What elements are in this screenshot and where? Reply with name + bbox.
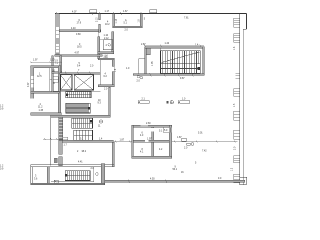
duct room left of landing [139, 59, 145, 75]
left unit B interior horiz wall [31, 91, 59, 93]
bottom wall right part [105, 180, 245, 182]
interior wall between room A1 and A2 [59, 30, 101, 32]
svg-text:1.97: 1.97 [33, 59, 38, 61]
landing vertical lines [160, 48, 162, 73]
machine room left of shafts [52, 73, 54, 92]
svg-text:10.2: 10.2 [105, 24, 110, 26]
dimension line above stair [144, 45, 204, 47]
interior vertical wall x~99 [98, 14, 101, 59]
ticks on core wall [65, 72, 91, 76]
small room below unit A [52, 56, 62, 73]
east wall window group 6 [234, 156, 240, 163]
stair flight D [74, 130, 93, 140]
svg-text:1.43: 1.43 [165, 43, 170, 45]
left unit B east wall [58, 66, 61, 115]
east wall window group 1 [234, 18, 240, 27]
bottom stair flight E [65, 171, 90, 181]
stair flight A [66, 91, 91, 97]
elevator shaft 2 [74, 75, 93, 90]
svg-text:7.61: 7.61 [184, 17, 189, 19]
block top wall window [141, 125, 149, 127]
wall above room 2 [62, 140, 113, 142]
window symbol above wall right [150, 10, 157, 13]
svg-text:1.87: 1.87 [177, 137, 182, 139]
svg-text:3.80: 3.80 [76, 34, 81, 36]
block right wall window [170, 128, 172, 133]
left unit B partitions [50, 68, 59, 92]
hall fixture 3 (flag) [178, 100, 189, 104]
top exterior wall [55, 13, 247, 15]
bathroom cluster [97, 17, 114, 54]
unit A west wall with two windows [56, 14, 60, 57]
east wall of bottom-left area [101, 164, 104, 185]
svg-text:3.07: 3.07 [28, 82, 30, 87]
wall above bottom-left unit [31, 165, 114, 167]
left unit B top wall [31, 66, 59, 68]
svg-text:2.60: 2.60 [146, 123, 151, 125]
svg-text:1.17: 1.17 [105, 11, 110, 13]
main stair flight F2 [161, 64, 201, 73]
elevator shaft 1 [60, 75, 72, 90]
lower-middle block outer walls [132, 125, 172, 158]
left connector line [114, 141, 132, 143]
sub-partition top-right cell [163, 127, 169, 132]
room 2 east wall [112, 142, 114, 167]
svg-text:1.67: 1.67 [123, 11, 128, 13]
dimension ticks on top wall [56, 12, 142, 15]
stair flight C [72, 118, 93, 128]
svg-text:4.07: 4.07 [72, 12, 77, 14]
lower part of west wall [59, 140, 62, 154]
hall fixture 2 (column and circle) [166, 101, 168, 104]
left unit B bottom wall [31, 113, 61, 115]
dimension line above unit B [30, 61, 62, 63]
svg-text:38.2: 38.2 [82, 151, 87, 153]
unit A bottom wall [55, 55, 102, 57]
main stair east wall [203, 47, 205, 76]
washer fixture [54, 180, 58, 183]
east wall window group 3 [234, 89, 240, 97]
tick marks on bottom wall [128, 179, 167, 182]
svg-text:1.87: 1.87 [120, 139, 125, 141]
svg-text:18.5: 18.5 [77, 46, 82, 48]
bottom wall left part [31, 183, 105, 185]
stair flight B [66, 103, 90, 113]
thin line right of stair E [93, 167, 95, 182]
svg-text:11.2: 11.2 [38, 106, 43, 108]
vertical wall right of corridor [109, 87, 111, 115]
svg-text:12.5: 12.5 [37, 76, 42, 78]
svg-text:1.05: 1.05 [152, 61, 154, 66]
window symbol above wall left [90, 10, 97, 13]
top-middle room [113, 14, 142, 28]
line under shafts [52, 91, 101, 93]
block interior door gaps [151, 128, 153, 131]
east wall window group 4 [234, 111, 240, 120]
svg-text:1.97: 1.97 [147, 138, 152, 140]
svg-text:1.10: 1.10 [116, 18, 118, 23]
east exterior wall lines [240, 14, 247, 185]
main stair: pier [145, 47, 150, 54]
room R1 [98, 58, 114, 87]
svg-text:1.10: 1.10 [50, 59, 55, 61]
svg-text:7.42: 7.42 [202, 150, 207, 152]
core top wall above elevators [60, 73, 101, 75]
hatched west wall of stair tower [59, 117, 63, 140]
main stair flight F1 with diagonal [161, 51, 201, 64]
svg-text:1.45: 1.45 [39, 110, 44, 112]
east wall marks mid [236, 73, 240, 78]
svg-text:5.01: 5.01 [198, 132, 203, 134]
main stair west wall [145, 47, 147, 75]
svg-text:4.41: 4.41 [78, 162, 83, 164]
small box and tick line at corridor [43, 137, 68, 142]
svg-text:17.9: 17.9 [77, 22, 82, 24]
east wall window group 7 [234, 174, 240, 183]
east wall window group 5 [234, 130, 240, 139]
svg-text:2.12: 2.12 [104, 38, 109, 40]
bottom-left unit west wall [31, 165, 32, 185]
wall below corridor (stair top wall) [51, 115, 110, 117]
main stair top wall [145, 47, 205, 49]
fixtures near right connector [182, 138, 194, 145]
stair E bottom line [51, 181, 94, 183]
bottom-right corner joint [240, 176, 247, 178]
hall fixture 1 (flag) [138, 100, 149, 104]
corridor west line [50, 115, 52, 165]
circle symbol near stair E [95, 173, 98, 176]
bottom-left unit divider [47, 167, 49, 185]
svg-text:2.12: 2.12 [97, 17, 99, 22]
door cluster at landing [140, 76, 143, 79]
right connector line [172, 141, 238, 143]
svg-text:9.87: 9.87 [180, 78, 185, 80]
svg-text:4.97: 4.97 [75, 52, 80, 54]
svg-text:4.40: 4.40 [71, 28, 76, 30]
circle symbol right of flight C [99, 120, 102, 123]
svg-text:1.10: 1.10 [104, 35, 109, 37]
svg-text:4.50: 4.50 [150, 178, 155, 180]
left unit B west wall with window [31, 66, 34, 99]
corridor south wall below stair [133, 74, 204, 76]
east wall window group 2 [234, 34, 240, 43]
svg-text:56.1: 56.1 [173, 169, 178, 171]
wall stub above unit [54, 158, 57, 162]
